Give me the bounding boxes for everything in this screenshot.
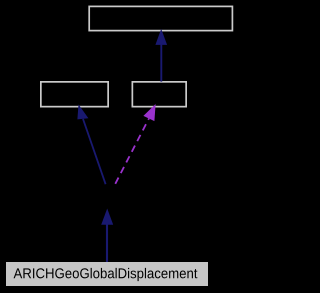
inheritance arrow: right class to top base (solid midnightblue) (155, 29, 167, 82)
inheritance arrow: hidden node to left base (solid midnightblue, diagonal) (77, 104, 105, 184)
usage arrow: hidden node to right class (dashed darkorchid, diagonal) (115, 104, 155, 184)
inheritance arrow: ARICHGeoGlobalDisplacement to hidden node (solid midnightblue, vertical) (101, 209, 113, 263)
node box: right class (unlabeled) (132, 82, 186, 107)
node box: ARICHGeoGlobalDisplacement (current class, grey fill) (6, 262, 208, 286)
node box: left base class (unlabeled) (41, 82, 108, 107)
node box: top base class (unlabeled) (89, 6, 232, 30)
